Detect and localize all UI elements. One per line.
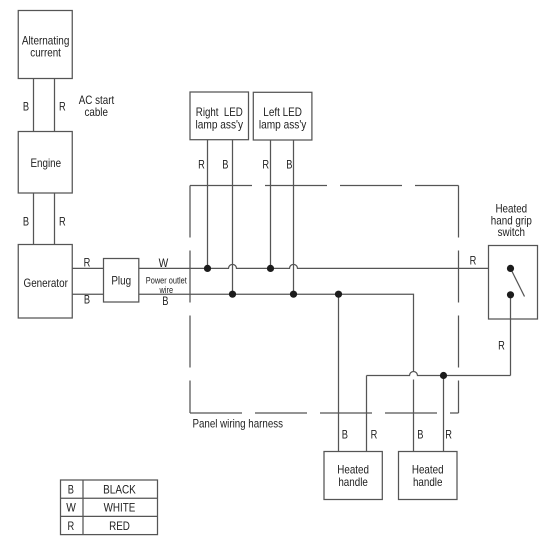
svg-text:Panel wiring harness: Panel wiring harness <box>193 417 284 431</box>
svg-text:lamp ass'y: lamp ass'y <box>196 117 244 131</box>
svg-text:lamp ass'y: lamp ass'y <box>259 117 307 131</box>
svg-text:B: B <box>68 483 74 497</box>
svg-text:Engine: Engine <box>31 156 62 170</box>
svg-text:R: R <box>84 256 91 270</box>
svg-text:cable: cable <box>84 105 108 119</box>
svg-text:B: B <box>286 158 292 172</box>
svg-text:B: B <box>222 158 228 172</box>
svg-text:R: R <box>498 339 505 353</box>
svg-text:R: R <box>59 100 66 114</box>
svg-text:R: R <box>198 158 205 172</box>
svg-text:handle: handle <box>413 475 443 489</box>
svg-text:current: current <box>30 45 61 59</box>
svg-text:Generator: Generator <box>24 276 68 290</box>
svg-text:RED: RED <box>109 519 130 533</box>
svg-text:B: B <box>84 293 90 307</box>
svg-text:switch: switch <box>498 225 525 239</box>
svg-text:Power outlet: Power outlet <box>146 276 187 286</box>
svg-text:BLACK: BLACK <box>103 483 136 497</box>
svg-text:B: B <box>417 428 423 442</box>
svg-text:B: B <box>162 294 168 308</box>
svg-text:Plug: Plug <box>111 273 131 287</box>
svg-text:B: B <box>342 428 348 442</box>
svg-text:R: R <box>262 158 269 172</box>
svg-text:handle: handle <box>338 475 368 489</box>
svg-text:W: W <box>66 501 76 515</box>
svg-text:R: R <box>371 428 378 442</box>
svg-text:R: R <box>59 215 66 229</box>
svg-text:R: R <box>445 428 452 442</box>
svg-text:R: R <box>470 253 477 267</box>
svg-text:WHITE: WHITE <box>104 501 136 515</box>
svg-text:R: R <box>67 519 74 533</box>
svg-text:W: W <box>159 256 169 270</box>
svg-text:B: B <box>23 215 29 229</box>
svg-text:B: B <box>23 100 29 114</box>
